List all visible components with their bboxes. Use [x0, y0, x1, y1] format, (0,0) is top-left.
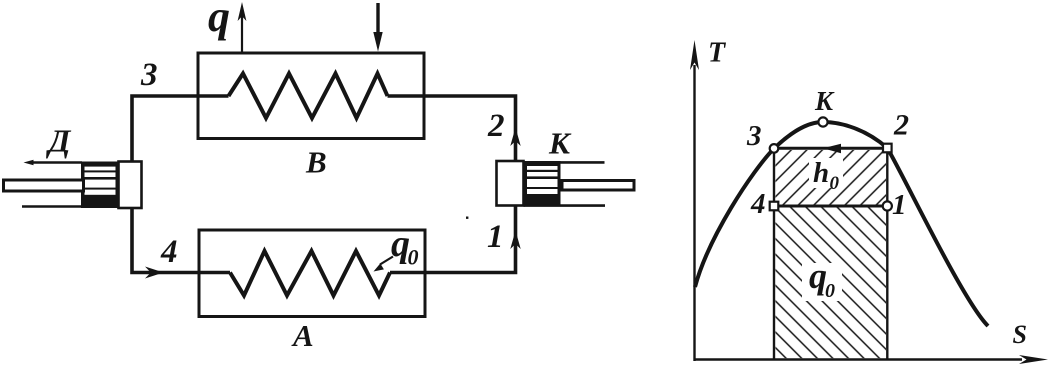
svg-text:0: 0 [825, 280, 835, 302]
svg-text:А: А [291, 318, 314, 353]
zigzag coil B [229, 74, 388, 119]
node label 2 [487, 108, 505, 144]
svg-text:K: K [814, 86, 835, 116]
label K compressor [548, 126, 572, 161]
svg-text:3: 3 [746, 120, 762, 152]
S axis [694, 355, 1048, 364]
svg-text:S: S [1013, 320, 1027, 349]
svg-text:4: 4 [750, 188, 766, 220]
svg-text:1: 1 [487, 219, 504, 255]
hatched area q0 (below 4-1) [776, 208, 887, 359]
compressor K cylinder top wall [524, 161, 605, 164]
svg-text:1: 1 [892, 189, 907, 221]
heat out arrow q [238, 2, 247, 52]
svg-text:4: 4 [160, 234, 178, 270]
wire node 4: from expander to exchanger A [132, 208, 230, 279]
label A [291, 318, 314, 353]
point 2 label [893, 109, 909, 142]
compressor K piston [524, 161, 561, 206]
svg-text:3: 3 [140, 57, 158, 93]
compressor K piston rod [562, 181, 634, 191]
svg-text:2: 2 [487, 108, 505, 144]
svg-text:В: В [305, 145, 327, 180]
T axis label [708, 38, 727, 69]
point K marker [818, 117, 827, 126]
wire node 3: from exchanger B to expander [132, 96, 229, 162]
process line 4-1 [774, 205, 887, 208]
point 1 label [892, 189, 907, 221]
label q [208, 0, 230, 41]
node label 1 [487, 219, 504, 255]
node label 4 [160, 234, 178, 270]
svg-text:Д: Д [46, 123, 72, 159]
compressor K cylinder head [497, 161, 524, 206]
point K label [814, 86, 835, 116]
wire node 1: from exchanger A to compressor [390, 206, 521, 273]
label q0 with arrow [374, 223, 419, 272]
svg-text:0: 0 [830, 173, 840, 194]
heat exchanger B box [198, 53, 424, 139]
point 4 marker [770, 202, 779, 211]
process line 3-2 with arrow [774, 144, 887, 154]
expander D piston [81, 162, 119, 209]
saturation dome curve [695, 122, 988, 326]
expander D cylinder bottom wall [22, 205, 81, 208]
label q0 area [802, 256, 842, 302]
svg-text:q: q [208, 0, 230, 41]
point 1 marker [883, 201, 892, 210]
zigzag coil A [230, 251, 390, 296]
wire node 2: from exchanger B to compressor [388, 96, 521, 161]
point 3 label [746, 120, 762, 152]
svg-text:h: h [813, 157, 829, 189]
cycle left vertical 3-4 [773, 149, 775, 360]
S axis label [1013, 320, 1027, 349]
compressor K cylinder bottom wall [524, 204, 606, 207]
label h0 [809, 157, 843, 194]
expander D cylinder top wall with arrow [24, 160, 83, 166]
svg-text:T: T [708, 38, 727, 69]
node label 3 [140, 57, 158, 93]
svg-text:0: 0 [408, 245, 419, 270]
expander D cylinder head [119, 162, 142, 209]
point 3 marker [770, 144, 779, 153]
label B [305, 145, 327, 180]
cycle right vertical 2-1 [886, 149, 888, 360]
T axis [690, 40, 699, 361]
svg-text:2: 2 [893, 109, 909, 142]
point 4 label [750, 188, 766, 220]
coolant in arrow [373, 3, 382, 52]
heat exchanger A box [199, 230, 425, 317]
expander D piston rod [4, 180, 84, 191]
hatched area h0 (2-3-4-1) [776, 150, 887, 205]
point 2 marker [883, 144, 892, 153]
label D expander [46, 123, 72, 159]
speck [466, 217, 468, 219]
svg-text:К: К [548, 126, 572, 161]
